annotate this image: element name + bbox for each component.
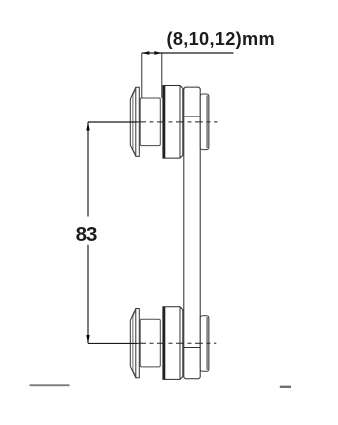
top clamp gasket block: [140, 98, 160, 146]
bottom clamp gasket block: [140, 319, 160, 367]
glass panel edge right (top clamp slot): [161, 53, 163, 98]
glass bar hidden edge bottom: [184, 347, 200, 349]
extension line bottom: [88, 342, 138, 344]
glass bar hidden edge top: [184, 116, 200, 118]
arrowhead right: [154, 51, 162, 55]
bottom clamp knob disc: [163, 307, 183, 380]
glass panel edge left (top clamp slot): [141, 53, 143, 98]
svg-text:(8,10,12)mm: (8,10,12)mm: [167, 29, 275, 49]
dimension 83 vertical line lower: [87, 245, 89, 344]
top clamp back plate: [200, 94, 209, 150]
bottom clamp back plate: [200, 316, 209, 372]
dimension line thickness (8,10,12)mm: [142, 52, 234, 54]
arrowhead up: [86, 122, 89, 130]
dimension 83 vertical line upper: [87, 122, 89, 217]
top clamp knob disc: [163, 86, 183, 159]
arrowhead down: [86, 335, 89, 343]
glass bar panel: [184, 87, 200, 379]
extension line top: [88, 121, 138, 123]
bottom clamp cap washer: [130, 309, 139, 378]
border mark bottom right: [280, 386, 291, 388]
label 83: [76, 223, 97, 246]
label (8,10,12)mm: [167, 29, 275, 49]
centerline top clamp: [138, 121, 218, 123]
border mark bottom left: [30, 384, 70, 386]
svg-text:83: 83: [76, 223, 97, 246]
centerline bottom clamp: [138, 342, 216, 344]
top clamp cap washer: [130, 87, 139, 156]
arrowhead left: [142, 51, 150, 55]
